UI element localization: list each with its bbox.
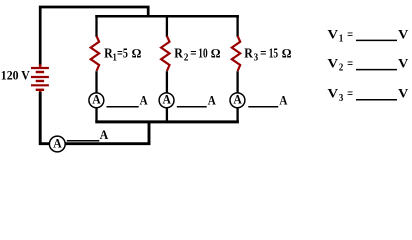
label A2 unit xyxy=(208,94,216,108)
svg-text:2: 2 xyxy=(339,63,343,74)
wire branch 1 bottom lead xyxy=(95,71,97,122)
wire branch 3 bottom lead xyxy=(236,71,238,122)
svg-text:Ω: Ω xyxy=(282,47,292,61)
label R3 = 15 ohm xyxy=(244,46,291,64)
svg-text:=: = xyxy=(347,57,353,71)
resistor R2 xyxy=(161,36,169,71)
blank line A2 reading xyxy=(177,106,207,108)
wire parallel top rail xyxy=(95,15,239,18)
resistor R1 xyxy=(91,36,99,71)
svg-text:120 V: 120 V xyxy=(1,69,31,83)
blank line V3 xyxy=(356,99,397,101)
svg-text:R: R xyxy=(244,47,253,62)
label R1 = 5 ohm xyxy=(104,46,141,64)
svg-text:A: A xyxy=(279,94,287,108)
svg-text:A: A xyxy=(208,94,216,108)
svg-text:15: 15 xyxy=(269,46,278,61)
svg-text:A: A xyxy=(233,91,242,106)
blank line V2 xyxy=(356,69,397,71)
label V2 = xyxy=(328,56,354,74)
svg-text:A: A xyxy=(162,91,171,106)
label V2 unit xyxy=(398,56,409,71)
ammeter A2 xyxy=(159,91,174,107)
svg-text:V: V xyxy=(328,86,339,101)
svg-text:=: = xyxy=(347,27,353,41)
blank line A main reading xyxy=(67,140,100,142)
label V1 = xyxy=(328,26,354,44)
svg-text:=: = xyxy=(347,87,353,101)
wire parallel bottom rail xyxy=(95,120,239,123)
battery B1 xyxy=(31,64,49,92)
blank line A3 reading xyxy=(248,106,278,108)
wire branch 1 top lead xyxy=(95,15,97,37)
label A3 unit xyxy=(279,94,287,108)
label A main unit xyxy=(100,128,109,142)
svg-text:V: V xyxy=(398,56,409,71)
svg-text:A: A xyxy=(140,94,148,108)
svg-text:5: 5 xyxy=(123,46,128,61)
blank line A1 reading xyxy=(107,106,139,108)
ammeter A main on battery return wire xyxy=(49,135,65,152)
ammeter A3 xyxy=(230,91,245,107)
svg-text:3: 3 xyxy=(339,93,343,104)
ammeter A1 xyxy=(89,91,104,107)
svg-text:2: 2 xyxy=(184,53,189,64)
svg-text:Ω: Ω xyxy=(132,47,142,61)
svg-text:V: V xyxy=(398,86,409,101)
wire top rail from battery to junction xyxy=(40,7,148,66)
blank line V1 xyxy=(356,39,397,41)
label V3 unit xyxy=(398,86,409,101)
svg-text:A: A xyxy=(92,91,101,106)
svg-text:V: V xyxy=(328,56,339,71)
svg-text:3: 3 xyxy=(254,53,259,64)
label V1 unit xyxy=(398,26,409,41)
svg-text:10: 10 xyxy=(198,46,207,61)
svg-text:A: A xyxy=(100,128,109,142)
wire bottom return: battery negative lead, bottom wire, riser xyxy=(40,92,149,144)
svg-text:=: = xyxy=(260,46,266,61)
svg-text:R: R xyxy=(174,47,183,62)
svg-text:V: V xyxy=(398,26,409,41)
svg-text:A: A xyxy=(53,135,62,150)
label 120 V xyxy=(1,69,31,83)
svg-text:=: = xyxy=(190,46,196,61)
wire branch 3 top lead xyxy=(236,15,238,37)
wire branch 2 bottom lead xyxy=(166,71,168,122)
label V3 = xyxy=(328,86,354,104)
wire branch 2 top lead xyxy=(166,15,168,37)
label R2 = 10 ohm xyxy=(174,46,220,64)
label A1 unit xyxy=(140,94,148,108)
svg-text:V: V xyxy=(328,26,339,41)
resistor R3 xyxy=(232,36,240,71)
svg-text:Ω: Ω xyxy=(211,47,221,61)
svg-text:1: 1 xyxy=(339,33,343,44)
